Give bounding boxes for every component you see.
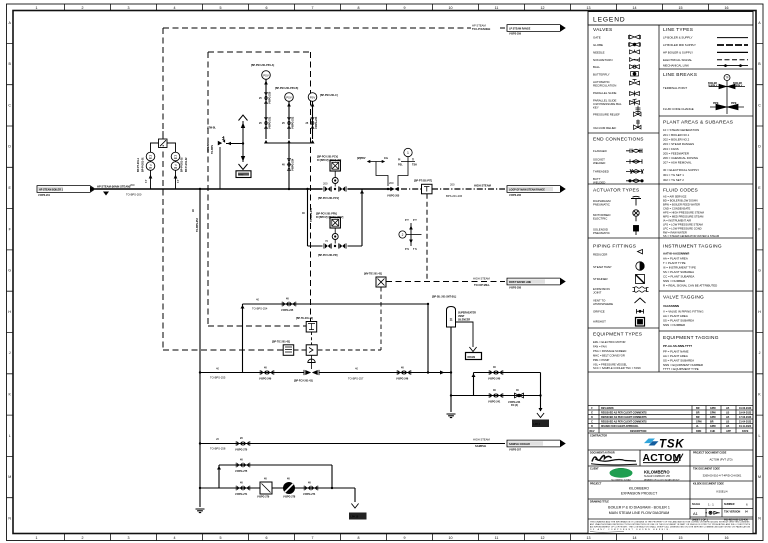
svg-text:5: 5: [220, 536, 222, 540]
svg-text:V-BPG-241: V-BPG-241: [488, 401, 501, 404]
safety valve PSV-A balloon: [262, 71, 271, 80]
svg-text:14: 14: [633, 536, 637, 540]
svg-text:T S: T S: [413, 248, 417, 251]
temperature element box on line: [306, 322, 317, 333]
svg-text:G: G: [758, 269, 761, 273]
svg-text:14: 14: [633, 6, 637, 10]
svg-text:V-BPG-231: V-BPG-231: [269, 116, 272, 129]
svg-text:TTTT = EQUIPMENT TYPE: TTTT = EQUIPMENT TYPE: [663, 367, 699, 371]
motorised tie valve box: [376, 277, 386, 287]
svg-text:1: 1: [407, 151, 409, 155]
svg-text:REV-MARK: REV-MARK: [601, 407, 614, 410]
svg-text:[M]PRV: [M]PRV: [357, 157, 366, 160]
svg-text:C: C: [8, 103, 11, 107]
svg-text:9: 9: [404, 536, 406, 540]
wire: main steam line ML1: [95, 188, 308, 190]
svg-text:LP BOILER MID SUPPLY: LP BOILER MID SUPPLY: [663, 43, 696, 47]
desuperheater control valve: [304, 370, 319, 375]
svg-text:END CONNECTIONS: END CONNECTIONS: [593, 137, 644, 143]
actuator box bypass: [330, 218, 340, 228]
svg-text:GLOBE: GLOBE: [593, 43, 603, 47]
svg-text:RECIRCULATION: RECIRCULATION: [593, 83, 616, 87]
svg-text:[BP-PCV-201-PCV]: [BP-PCV-201-PCV]: [318, 197, 339, 200]
svg-text:TO-BPS: TO-BPS: [211, 145, 214, 154]
svg-text:BPS-201-206: BPS-201-206: [446, 194, 463, 198]
svg-text:III = INSTRUMENT TYPE: III = INSTRUMENT TYPE: [663, 266, 696, 270]
svg-text:40: 40: [216, 367, 219, 371]
svg-text:VALVE TAGGING: VALVE TAGGING: [663, 295, 704, 301]
wire: tie signal horizontal: [318, 349, 381, 351]
svg-text:207 = ASH REMOVAL: 207 = ASH REMOVAL: [663, 161, 692, 165]
svg-text:CLIENT: CLIENT: [590, 468, 599, 471]
equipment tagging section: [663, 335, 719, 371]
svg-text:LP BOILER & SUPPLY: LP BOILER & SUPPLY: [663, 36, 693, 40]
svg-text:SILENCER: SILENCER: [458, 319, 470, 322]
svg-text:SUPPLY: SUPPLY: [708, 85, 718, 88]
svg-text:TERMINAL POINT: TERMINAL POINT: [663, 86, 687, 90]
off-page connector flag: main steam range: [507, 186, 565, 193]
wire: drop from spray line to desuper line: [427, 304, 429, 373]
svg-text:GPM: GPM: [710, 425, 715, 428]
plant areas section: [663, 120, 733, 183]
svg-text:AIRSHOT: AIRSHOT: [593, 320, 606, 324]
svg-text:201 = BOILER NO.1: 201 = BOILER NO.1: [663, 133, 690, 137]
svg-text:FIRST WATER LINE: FIRST WATER LINE: [509, 281, 532, 284]
svg-text:HP STEAM: HP STEAM: [472, 24, 486, 28]
svg-text:CND = CONDENSATE: CND = CONDENSATE: [663, 207, 691, 211]
svg-text:TSK: TSK: [659, 439, 684, 451]
svg-text:KILOMBERO: KILOMBERO: [644, 470, 670, 475]
junction: safety drop on main line: [288, 188, 290, 190]
svg-text:TO-BPS-255: TO-BPS-255: [210, 376, 226, 380]
svg-text:LEGEND: LEGEND: [593, 17, 626, 24]
svg-text:MHC = BELT CONVEYOR: MHC = BELT CONVEYOR: [593, 354, 625, 358]
actuator box PCV main: [330, 161, 340, 171]
svg-text:200: 200: [389, 181, 394, 185]
svg-text:205 = FEEDWATER: 205 = FEEDWATER: [663, 151, 689, 155]
svg-text:NUMBER: NUMBER: [724, 503, 735, 506]
svg-text:PROJECT DOCUMENT CODE: PROJECT DOCUMENT CODE: [693, 452, 727, 455]
svg-text:206 = CHEMICAL DOSING: 206 = CHEMICAL DOSING: [663, 156, 699, 160]
svg-text:PP-AA-SS-NNN-TTTT: PP-AA-SS-NNN-TTTT: [663, 344, 692, 348]
svg-text:TO LP RANGE: TO LP RANGE: [472, 27, 490, 31]
off-page connector flag top right: [507, 25, 565, 32]
svg-text:VENT: VENT: [238, 174, 244, 176]
svg-text:04-11-2022: 04-11-2022: [739, 425, 752, 428]
svg-text:HIGH STEAM: HIGH STEAM: [473, 277, 490, 281]
wire: sample line: [200, 443, 505, 445]
valve pair on safety drop: [287, 159, 291, 171]
svg-text:203 = STEAM RANGES: 203 = STEAM RANGES: [663, 142, 694, 146]
instrument tagging section: [663, 244, 722, 288]
fluid codes section: [663, 188, 720, 238]
svg-text:FO (4): FO (4): [511, 404, 518, 407]
ground: silencer drain: [447, 414, 456, 418]
area boundary dashed box inner: [208, 52, 311, 326]
svg-text:TI: TI: [412, 159, 414, 162]
small relief valve on vent riser: [218, 139, 225, 145]
svg-text:ACTOM (PVT LTD): ACTOM (PVT LTD): [710, 458, 733, 462]
svg-text:THREADED: THREADED: [593, 170, 609, 174]
svg-text:HP STEAM BOILER 1: HP STEAM BOILER 1: [39, 189, 64, 192]
svg-text:ISSUED FOR CLIENT APPROVAL: ISSUED FOR CLIENT APPROVAL: [601, 425, 639, 428]
svg-text:200: 200: [450, 183, 455, 187]
svg-text:PSL: PSL: [398, 164, 403, 167]
svg-text:301 = TG SET 1: 301 = TG SET 1: [663, 173, 684, 177]
isolation valves branch2: [287, 118, 291, 129]
svg-text:DOCUMENT AUTHOR: DOCUMENT AUTHOR: [590, 452, 615, 455]
wire: loop upper line: [219, 464, 332, 466]
svg-text:6: 6: [266, 6, 268, 10]
svg-text:L: L: [9, 434, 11, 438]
svg-text:FLANGED: FLANGED: [593, 149, 607, 153]
svg-text:10x: 10x: [384, 157, 389, 160]
area boundary dashed box outer: [163, 28, 468, 350]
instrument stack 2 riser: [167, 143, 176, 189]
svg-text:S: S: [449, 317, 452, 322]
legend title box: [588, 12, 753, 26]
svg-text:10: 10: [449, 536, 453, 540]
TSK logo: [644, 439, 684, 451]
atmospheric vent branch riser: [219, 147, 221, 189]
svg-text:SUGAR COMPANY LTD: SUGAR COMPANY LTD: [644, 475, 670, 478]
svg-text:200: 200: [130, 183, 135, 187]
wire: blowdown lower branch: [450, 395, 541, 397]
svg-text:BUTTERFLY: BUTTERFLY: [593, 73, 610, 77]
svg-text:BR: BR: [710, 421, 714, 424]
svg-text:15: 15: [679, 536, 683, 540]
svg-text:LPS = LOW PRESSURE STEAM: LPS = LOW PRESSURE STEAM: [663, 223, 704, 227]
svg-text:V-BPG-246: V-BPG-246: [396, 378, 409, 381]
svg-text:BOILER P & ID DIAGRAM - BOILER: BOILER P & ID DIAGRAM - BOILER 1: [608, 506, 670, 510]
svg-text:LP# 10: LP# 10: [351, 516, 359, 519]
svg-text:ATM-BL: ATM-BL: [207, 127, 217, 130]
svg-text:8: 8: [358, 6, 360, 10]
svg-text:40 V-BP: 40 V-BP: [207, 143, 210, 152]
safety valve branch 3 riser: [312, 101, 314, 139]
svg-text:LOOP OF MAIN STEAM RANGE: LOOP OF MAIN STEAM RANGE: [509, 189, 545, 192]
svg-text:11: 11: [495, 6, 499, 10]
svg-text:C: C: [591, 421, 593, 424]
svg-text:LB: LB: [726, 407, 729, 410]
svg-text:PROJECT: PROJECT: [590, 483, 602, 486]
flag: drain: [466, 353, 482, 360]
isolation valves branch1 upper: [264, 93, 268, 104]
svg-text:VALVES: VALVES: [593, 27, 612, 33]
valve pair V-BPG-270: [236, 441, 250, 446]
svg-text:BALL: BALL: [593, 65, 600, 69]
vent to atmosphere arrow: [239, 115, 248, 121]
svg-text:AA = PLANT AREA: AA = PLANT AREA: [663, 354, 688, 358]
svg-text:NNN = NUMBER: NNN = NUMBER: [663, 279, 685, 283]
svg-text:ELECTRICAL SIGNAL: ELECTRICAL SIGNAL: [663, 58, 693, 62]
piping fittings section: [593, 244, 649, 327]
svg-text:17-03-2023: 17-03-2023: [739, 416, 752, 419]
svg-text:KILSEK DOCUMENT CODE: KILSEK DOCUMENT CODE: [693, 483, 724, 486]
svg-text:J: J: [759, 351, 761, 355]
svg-text:[BP-PSV-201-PSV-A]: [BP-PSV-201-PSV-A]: [251, 64, 274, 67]
svg-text:V-BPG-271: V-BPG-271: [235, 493, 248, 496]
svg-text:EML = ELECTRIC MOTOR: EML = ELECTRIC MOTOR: [593, 340, 626, 344]
bypass left riser: [307, 189, 309, 246]
title sub grid: [690, 499, 753, 517]
svg-text:[MV-TIE-201-43]: [MV-TIE-201-43]: [364, 273, 382, 276]
svg-text:GPM: GPM: [710, 407, 715, 410]
svg-text:IA = INSTRUMENT AIR: IA = INSTRUMENT AIR: [663, 219, 691, 223]
revision table: [588, 406, 753, 434]
svg-text:[BP-SIL-201-SNT-SIL]: [BP-SIL-201-SNT-SIL]: [432, 296, 456, 299]
instrument balloon 1: [404, 148, 412, 156]
svg-text:LPC = LOW PRESSURE COND: LPC = LOW PRESSURE COND: [663, 227, 702, 231]
svg-text:10 = STEAM GENERATION: 10 = STEAM GENERATION: [663, 128, 699, 132]
svg-text:SS = STEAM GENERATOR WATER & S: SS = STEAM GENERATOR WATER & STEAM: [663, 234, 720, 238]
isolation valve pair V-BPG-246: [397, 370, 411, 375]
svg-text:REV: REV: [590, 430, 595, 433]
wire: bypass line: [308, 245, 363, 247]
svg-text:H: H: [8, 310, 11, 314]
strainer box V-BPG-279: [260, 482, 272, 494]
inline instrument PT box: [422, 184, 433, 194]
wire: silencer drop: [450, 327, 452, 412]
svg-text:SS = PLANT SUBAREA: SS = PLANT SUBAREA: [663, 359, 694, 363]
node label: stack1 tags: [137, 157, 148, 183]
valve tagging section: [663, 295, 704, 328]
svg-text:V-BPG-232: V-BPG-232: [292, 116, 295, 129]
svg-text:12: 12: [541, 6, 545, 10]
bypass right riser: [361, 189, 363, 246]
svg-text:13: 13: [587, 536, 591, 540]
svg-text:L: L: [759, 434, 761, 438]
svg-text:PNEUMATIC: PNEUMATIC: [593, 231, 610, 235]
svg-text:HPS = HIGH PRESSURE STEAM: HPS = HIGH PRESSURE STEAM: [663, 211, 705, 215]
svg-text:PP = PLANT NAME: PP = PLANT NAME: [663, 350, 689, 354]
svg-text:LP STEAM RANGE: LP STEAM RANGE: [509, 27, 531, 30]
svg-text:TSK DOCUMENT CODE: TSK DOCUMENT CODE: [693, 468, 720, 471]
svg-text:SCC = SAMPLE COOLER TNC = TAN: SCC = SAMPLE COOLER TNC = TANK: [593, 366, 641, 370]
svg-text:[BP-PT-201-PIT]: [BP-PT-201-PIT]: [414, 180, 432, 183]
svg-text:9: 9: [404, 6, 406, 10]
svg-text:13: 13: [587, 6, 591, 10]
svg-text:MAIN STEAM LINE FLOW DIAGRAM: MAIN STEAM LINE FLOW DIAGRAM: [609, 511, 670, 515]
svg-text:R = REAL SIGNAL CAN BE ATTRIBU: R = REAL SIGNAL CAN BE ATTRIBUTED: [663, 284, 717, 288]
svg-text:GPM: GPM: [696, 421, 701, 424]
svg-text:JOINT: JOINT: [593, 290, 602, 294]
svg-text:8: 8: [358, 536, 360, 540]
wire: blowdown upper branch: [474, 372, 541, 374]
svg-text:GPM: GPM: [710, 412, 715, 415]
svg-text:CHK: CHK: [710, 430, 715, 433]
svg-text:V-BPG-240: V-BPG-240: [488, 378, 501, 381]
svg-text:R=[BPCV]=[PRV]=[M]: R=[BPCV]=[PRV]=[M]: [317, 159, 341, 162]
svg-text:N: N: [758, 516, 761, 520]
svg-text:ATMOSPHERE: ATMOSPHERE: [593, 302, 613, 306]
svg-text:PSV: PSV: [286, 96, 292, 100]
svg-text:STEAM TRAP: STEAM TRAP: [593, 265, 611, 269]
instrument balloon 2: [399, 231, 406, 238]
svg-text:3: 3: [128, 536, 130, 540]
valve pair V-BPG-240: [489, 370, 503, 375]
svg-text:7: 7: [312, 6, 314, 10]
svg-text:NNN = NUMBER: NNN = NUMBER: [663, 323, 685, 327]
svg-text:PSG = PASSAGE SCREEN: PSG = PASSAGE SCREEN: [593, 349, 626, 353]
svg-text:HP STEAM (MAIN STEAM): HP STEAM (MAIN STEAM): [97, 184, 130, 188]
svg-text:BP-PI-201-02: BP-PI-201-02: [181, 157, 184, 172]
svg-text:DESCRIPTION: DESCRIPTION: [630, 430, 647, 433]
svg-text:3: 3: [128, 6, 130, 10]
svg-text:REDUCER: REDUCER: [593, 253, 607, 257]
wire: blowdown outlet drop: [540, 373, 542, 412]
svg-text:A1: A1: [693, 511, 699, 516]
svg-text:7: 7: [312, 536, 314, 540]
svg-text:LINE TYPES: LINE TYPES: [663, 27, 693, 33]
svg-text:D: D: [758, 145, 761, 149]
svg-text:NON-RETURN: NON-RETURN: [593, 58, 612, 62]
valve pair V-BPG-245: [282, 302, 296, 307]
svg-text:ACTUATOR TYPES: ACTUATOR TYPES: [593, 188, 639, 194]
svg-text:TO-BPS-200: TO-BPS-200: [126, 193, 142, 197]
svg-text:DRAIN: DRAIN: [468, 356, 476, 359]
main riser to lower headers: [199, 189, 201, 507]
svg-text:BP-TI-201-02: BP-TI-201-02: [185, 157, 188, 172]
svg-text:3269-00-S10-4-T-4PID-CH-0001: 3269-00-S10-4-T-4PID-CH-0001: [703, 474, 742, 478]
MPRV dimension pointer: [370, 162, 388, 187]
svg-text:V-BPG-249: V-BPG-249: [259, 378, 272, 381]
svg-text:GATE: GATE: [593, 36, 601, 40]
svg-text:J: J: [9, 351, 11, 355]
svg-text:TP: TP: [725, 77, 728, 80]
svg-text:WELDED: WELDED: [593, 180, 605, 184]
off-page connector flag: sample cooler: [507, 440, 565, 447]
svg-text:FLUID CODE CHANGE: FLUID CODE CHANGE: [663, 107, 694, 111]
contractor row: [588, 449, 753, 451]
svg-text:2: 2: [82, 536, 84, 540]
svg-text:PRESSURE RELIEF: PRESSURE RELIEF: [593, 113, 620, 117]
svg-text:LB: LB: [726, 412, 729, 415]
svg-text:BD = BOILER BLOW DOWN: BD = BOILER BLOW DOWN: [663, 199, 698, 203]
instrument PI/TI pair 2: [171, 152, 180, 161]
instrument PI/TI pair 1: [146, 152, 155, 161]
positioner circle PCV main: [332, 178, 338, 184]
signature logo: [592, 455, 612, 461]
svg-text:B: B: [591, 425, 593, 428]
svg-text:PML = PUMP: PML = PUMP: [593, 358, 609, 362]
wire: dashed branch line to CIP mill: [386, 281, 505, 283]
svg-text:202 = BOILER NO.2: 202 = BOILER NO.2: [663, 138, 690, 142]
svg-text:15: 15: [679, 6, 683, 10]
svg-text:AA = PLANT AREA: AA = PLANT AREA: [663, 257, 688, 261]
svg-text:20: 20: [216, 437, 219, 441]
positioner circle bypass: [332, 234, 338, 240]
svg-text:C: C: [758, 103, 761, 107]
isolation valve pair V-BPG-249: [260, 370, 274, 375]
hand switch box: [283, 345, 294, 356]
wire: dashed spur to TIC boxes: [294, 349, 307, 351]
loop riser right: [331, 465, 333, 488]
svg-text:LP# 4: LP# 4: [534, 423, 541, 426]
svg-text:KILOMBERO: KILOMBERO: [629, 487, 650, 491]
wire: HP steam top dashed line to LP range: [468, 27, 505, 29]
svg-text:V-BPG-205: V-BPG-205: [387, 195, 400, 198]
svg-text:MPS = MED PRESSURE STEAM: MPS = MED PRESSURE STEAM: [663, 215, 704, 219]
wire: TE to TIC dashed: [311, 332, 313, 345]
projection symbol: [705, 511, 719, 514]
svg-text:V = VALVE IN PIPING FITTING: V = VALVE IN PIPING FITTING: [663, 310, 704, 314]
svg-text:PLANT AREAS & SUBAREAS: PLANT AREAS & SUBAREAS: [663, 120, 733, 126]
svg-text:FLUID CODES: FLUID CODES: [663, 188, 698, 194]
svg-text:VSL = PRESSURE VESSEL: VSL = PRESSURE VESSEL: [593, 363, 628, 367]
wire: desuperheater water line: [200, 372, 450, 374]
bypass isolation group: [324, 243, 346, 248]
svg-text:ORIFICE: ORIFICE: [593, 310, 605, 314]
svg-text:INSTRUMENT TAGGING: INSTRUMENT TAGGING: [663, 244, 722, 250]
line types section: [663, 27, 748, 68]
svg-text:70: 70: [325, 239, 328, 243]
svg-text:LB: LB: [726, 416, 729, 419]
svg-text:BR: BR: [696, 416, 700, 419]
wire: sample connection to dashed drop: [406, 234, 421, 236]
svg-text:TO-BPS-258: TO-BPS-258: [210, 447, 226, 451]
riser between branches: [473, 373, 475, 396]
svg-text:APP: APP: [726, 430, 731, 433]
svg-text:STRAINER: STRAINER: [593, 277, 608, 281]
svg-text:[BP-TIC-201-43]: [BP-TIC-201-43]: [272, 341, 290, 344]
globe valve V-BPG-244: [515, 393, 524, 398]
svg-text:EQUIPMENT TAGGING: EQUIPMENT TAGGING: [663, 335, 719, 341]
off-page connector flag: first water line: [507, 278, 565, 285]
svg-text:REISSUED AS PER CLIENT COMMENT: REISSUED AS PER CLIENT COMMENTS: [601, 412, 647, 415]
svg-text:MEMBER OF ILLOVO SUGAR GROUP: MEMBER OF ILLOVO SUGAR GROUP: [644, 478, 680, 481]
svg-text:HIGH STEAM: HIGH STEAM: [473, 438, 490, 442]
svg-text:KEY: KEY: [593, 105, 599, 109]
svg-text:AA = PLANT AREA: AA = PLANT AREA: [663, 314, 688, 318]
svg-text:2: 2: [82, 6, 84, 10]
PRV station main isolation group: [324, 186, 346, 191]
kilombero green logo: [610, 468, 633, 478]
svg-text:HP BOILER & SUPPLY: HP BOILER & SUPPLY: [663, 50, 693, 54]
legend outer box: [588, 12, 753, 534]
valve pair V-BPG-275: [236, 463, 250, 468]
svg-text:VAASSNNN: VAASSNNN: [663, 304, 679, 308]
svg-text:SAMPLE COOLER: SAMPLE COOLER: [509, 443, 530, 446]
line breaks section: [663, 72, 745, 114]
svg-text:PSV: PSV: [310, 96, 316, 100]
flag: LP set 4: [532, 420, 549, 428]
flag: LP set 10: [349, 513, 367, 520]
node label: stack2 tags: [177, 157, 188, 183]
svg-text:TO-BPS-251: TO-BPS-251: [310, 208, 313, 222]
wire: signal drop from PT box: [426, 194, 428, 282]
svg-text:M: M: [8, 475, 11, 479]
diaphragm actuator on FCV: [308, 359, 315, 362]
valves section: [593, 27, 641, 130]
wire: safety valve header: [266, 142, 313, 144]
svg-text:H: H: [758, 310, 761, 314]
svg-text:PNEUMATIC: PNEUMATIC: [593, 202, 610, 206]
svg-text:16-06-2023: 16-06-2023: [739, 407, 752, 410]
wire: soot blower header: [200, 487, 355, 489]
svg-text:1 : 1: 1 : 1: [708, 503, 714, 507]
wire: vent up stack: [242, 121, 244, 144]
svg-text:V-BPG-234: V-BPG-234: [292, 158, 295, 171]
svg-text:VACUUM RELIEF: VACUUM RELIEF: [593, 126, 616, 130]
safety valve PSV-C balloon: [308, 93, 317, 102]
svg-text:30 = ELECTRICAL SUPPLY: 30 = ELECTRICAL SUPPLY: [663, 168, 699, 172]
svg-text:204 = FANS: 204 = FANS: [663, 147, 679, 151]
svg-text:302 = TG SET 2: 302 = TG SET 2: [663, 178, 684, 182]
svg-text:BP-PI-201-01: BP-PI-201-01: [142, 157, 145, 172]
svg-text:BP-PT-201-1: BP-PT-201-1: [137, 157, 140, 172]
svg-text:TO-BPS-257: TO-BPS-257: [348, 377, 364, 381]
